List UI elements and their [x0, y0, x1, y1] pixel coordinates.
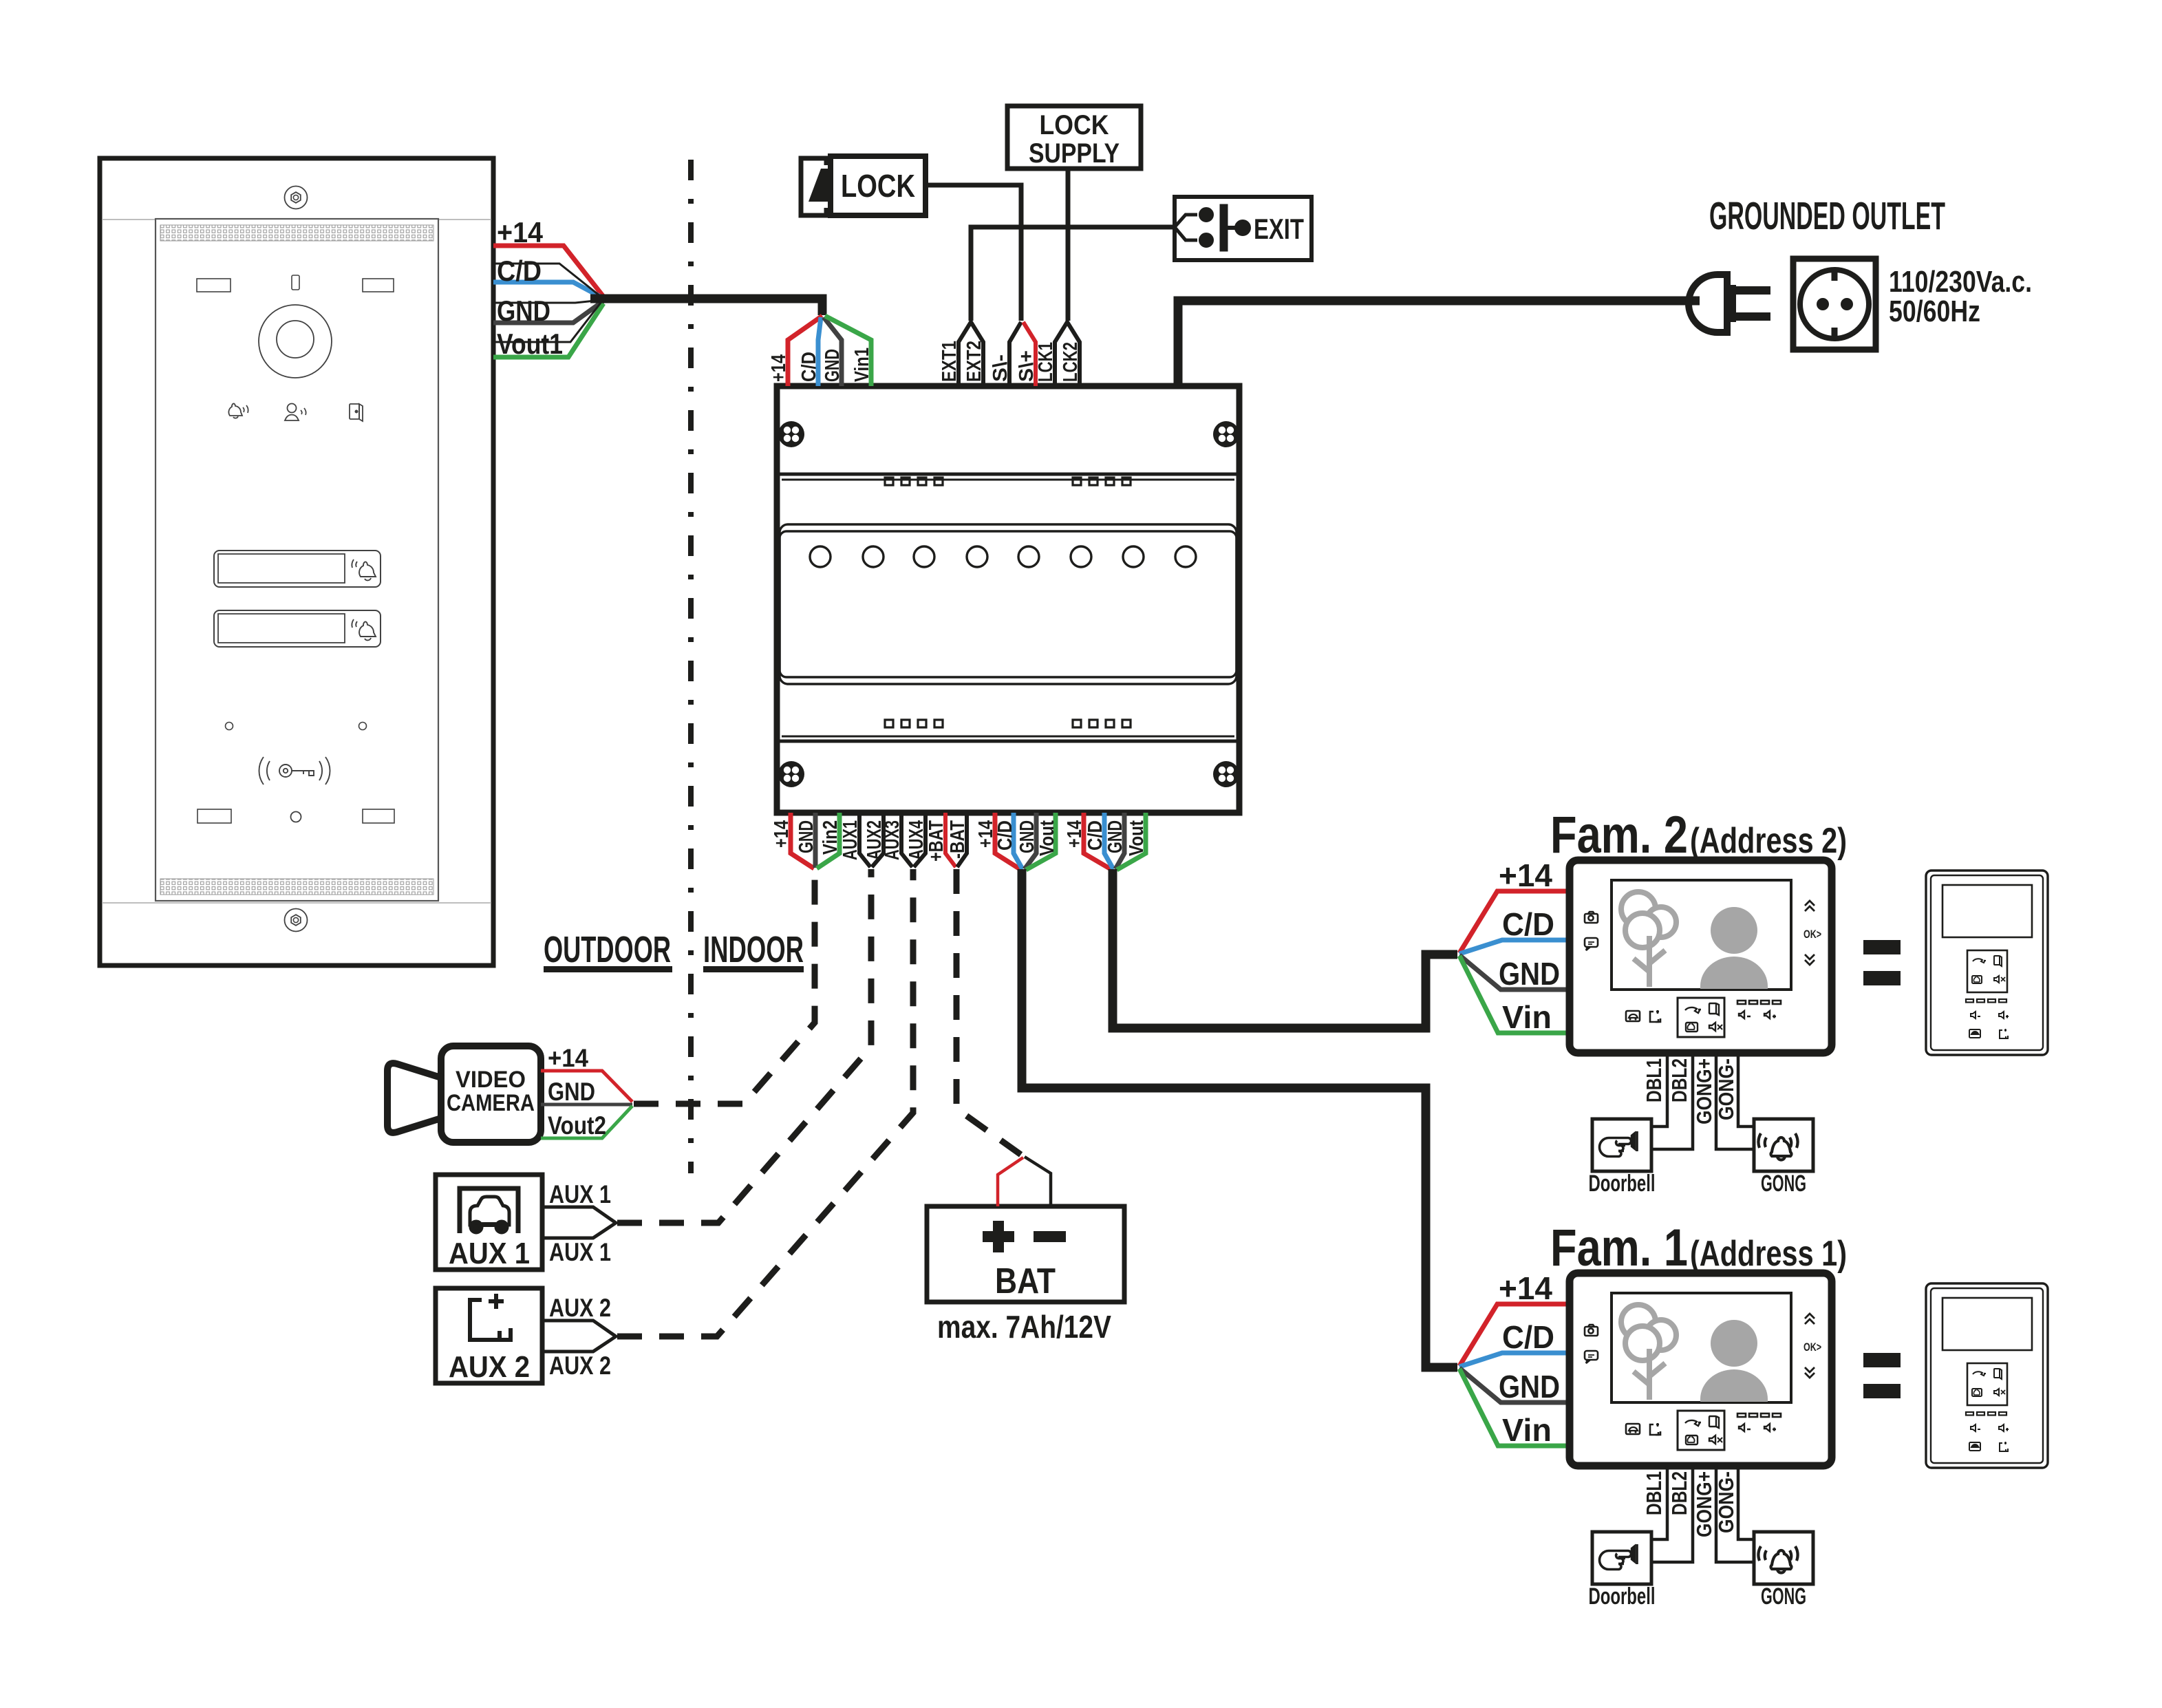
- svg-text:GONG+: GONG+: [1692, 1058, 1716, 1124]
- wire C/D group5: [1014, 813, 1023, 869]
- svg-text:INDOOR: INDOOR: [703, 929, 804, 970]
- svg-text:AUX 1: AUX 1: [449, 1237, 530, 1270]
- psu terminal squares bottom group A: [885, 720, 943, 727]
- aux2 arrow flag: [542, 1321, 616, 1352]
- SECTION: camera aux bat: [387, 869, 1124, 1384]
- svg-text:LOCK: LOCK: [841, 168, 915, 204]
- icon bell ring: [228, 403, 248, 418]
- wire +14 camera: [541, 1071, 632, 1102]
- bottom speaker hole: [291, 812, 301, 822]
- svg-text:(Address 1): (Address 1): [1690, 1234, 1847, 1274]
- wire exit to EXT pair: [971, 227, 1175, 321]
- led hole right: [359, 723, 367, 730]
- svg-text:Fam. 1: Fam. 1: [1550, 1219, 1688, 1277]
- underline OUTDOOR: [544, 966, 672, 972]
- psu terminal squares top group A: [885, 478, 943, 485]
- svg-text:C/D: C/D: [1084, 820, 1106, 851]
- compact icon door-open: [2000, 1029, 2008, 1038]
- wire lock supply to LCK pair: [1066, 169, 1071, 321]
- svg-text:AUX 1: AUX 1: [549, 1180, 611, 1208]
- gong bell icon: [1758, 1133, 1797, 1160]
- SECTION: outlet: [1178, 194, 2032, 386]
- sensor window right: [363, 279, 394, 292]
- svg-text:EXT2: EXT2: [963, 341, 985, 382]
- icon arrows down right: [1805, 954, 1815, 965]
- svg-text:GND: GND: [795, 820, 817, 853]
- wire GND group1: [813, 813, 818, 868]
- svg-text:+14: +14: [1064, 820, 1086, 848]
- compact icon handset: [1973, 959, 1986, 963]
- icon door in box: [1709, 1003, 1719, 1015]
- svg-text:50/60Hz: 50/60Hz: [1889, 295, 1980, 328]
- svg-text:S\-: S\-: [989, 354, 1012, 382]
- svg-text:Fam. 2: Fam. 2: [1550, 806, 1688, 864]
- svg-text:GONG: GONG: [1761, 1171, 1806, 1197]
- svg-text:Doorbell: Doorbell: [1589, 1171, 1656, 1197]
- flag outline 1: [493, 264, 600, 296]
- battery minus symbol: [1034, 1231, 1066, 1242]
- svg-text:AUX 1: AUX 1: [549, 1238, 611, 1266]
- svg-text:OK>: OK>: [1804, 928, 1821, 941]
- speaker grille bottom: [160, 879, 434, 895]
- wire Vout group5: [1026, 813, 1056, 870]
- lock strike bracket: [801, 158, 826, 215]
- compact icon door: [1994, 956, 2002, 966]
- wire Vout group6: [1117, 813, 1146, 870]
- svg-text:Vout: Vout: [1036, 820, 1058, 856]
- psu middle module outer: [780, 524, 1237, 684]
- fam unit reusable: [1459, 857, 2048, 1197]
- wire battery minus: [1025, 1157, 1051, 1206]
- psu top cap line: [777, 473, 1239, 476]
- wire GND to psu: [824, 317, 842, 386]
- wire AUX2: [872, 813, 884, 867]
- inner face plate: [156, 219, 438, 901]
- svg-text:+14: +14: [768, 354, 790, 382]
- wire AUX4: [914, 813, 925, 867]
- icon vol plus: [1764, 1011, 1776, 1018]
- doorbell hand icon: [1600, 1131, 1638, 1157]
- screw top: [285, 186, 308, 209]
- SECTION: psu bottom terminals: [771, 813, 1148, 870]
- aux2 box: [436, 1288, 542, 1383]
- video camera lens hood: [387, 1063, 441, 1133]
- svg-text:Vin: Vin: [1502, 999, 1552, 1035]
- svg-text:GND: GND: [548, 1078, 595, 1106]
- svg-text:GONG-: GONG-: [1714, 1058, 1738, 1120]
- wire +14 group6: [1084, 813, 1112, 870]
- SECTION: top boxes: [801, 106, 1312, 321]
- SECTION: divider: [544, 160, 804, 1173]
- wire GND group5: [1025, 813, 1036, 869]
- icon intercom speak: [285, 404, 306, 421]
- mains cable psu to plug: [1178, 301, 1700, 386]
- icon intercom left: [1585, 938, 1598, 950]
- dashed wire camera to psu: [634, 871, 815, 1104]
- compact monitor screen: [1942, 885, 2032, 937]
- svg-text:SUPPLY: SUPPLY: [1029, 138, 1120, 169]
- psu terminal squares top group B: [1073, 478, 1131, 485]
- svg-text:AUX4: AUX4: [906, 820, 928, 860]
- camera lens: [259, 305, 332, 378]
- bottom window left: [197, 809, 231, 823]
- svg-text:LOCK: LOCK: [1040, 110, 1109, 140]
- svg-text:110/230Va.c.: 110/230Va.c.: [1889, 265, 2032, 299]
- compact four dashes: [1966, 999, 2006, 1003]
- icon arrows up right: [1805, 901, 1815, 911]
- compact monitor button box: [1967, 950, 2007, 992]
- svg-text:Vout: Vout: [1126, 820, 1148, 856]
- svg-text:C/D: C/D: [994, 820, 1016, 851]
- compact vol minus: [1971, 1012, 1980, 1018]
- call button plate 2: [214, 610, 381, 647]
- svg-text:DBL1: DBL1: [1642, 1058, 1666, 1102]
- svg-text:EXT1: EXT1: [939, 341, 961, 382]
- compact icon bell-house: [1972, 976, 1982, 983]
- svg-text:GROUNDED OUTLET: GROUNDED OUTLET: [1709, 194, 1945, 238]
- psu screw bottom-right: [1213, 761, 1239, 787]
- svg-text:C/D: C/D: [798, 352, 820, 382]
- lock box: [831, 156, 925, 215]
- four dashes: [1737, 1001, 1781, 1004]
- compact vol plus: [1999, 1012, 2009, 1018]
- svg-text:DBL2: DBL2: [1667, 1058, 1691, 1102]
- svg-text:LCK2: LCK2: [1060, 342, 1082, 382]
- svg-text:BAT: BAT: [995, 1261, 1056, 1301]
- compact icon car: [1969, 1029, 1980, 1038]
- wire AUX3: [901, 813, 912, 867]
- svg-text:+14: +14: [497, 216, 544, 248]
- svg-text:AUX1: AUX1: [839, 820, 861, 860]
- wire +14 monitor: [1459, 891, 1570, 953]
- wire +BAT: [945, 813, 956, 867]
- SECTION: outdoor wires: [493, 216, 822, 360]
- wire +14 group5: [995, 813, 1021, 870]
- rfid key reader icon: [259, 757, 330, 784]
- psu screw top-left: [778, 421, 804, 447]
- psu top strip line: [782, 479, 1234, 481]
- wire GONG-: [1738, 1053, 1754, 1127]
- outlet socket icon: [1793, 259, 1876, 350]
- outdoor/indoor divider line: [688, 160, 694, 1173]
- wire GND camera: [541, 1103, 632, 1107]
- terminal pair EXT1 EXT2: [959, 322, 983, 386]
- dashed wire battery to psu: [956, 869, 1024, 1157]
- svg-text:AUX 2: AUX 2: [549, 1294, 611, 1322]
- svg-text:+14: +14: [548, 1044, 588, 1072]
- icon camera left: [1585, 912, 1598, 923]
- terminal pair LCK1 LCK2: [1055, 322, 1080, 386]
- monitor center button box: [1678, 998, 1724, 1037]
- svg-text:GND: GND: [822, 349, 844, 382]
- wire GND door station: [493, 301, 603, 323]
- wire AUX1: [859, 813, 870, 867]
- gong box: [1754, 1119, 1813, 1171]
- SECTION: psu: [777, 386, 1239, 813]
- outdoor door station panel frame: [100, 158, 493, 965]
- use fam1 duplicate of fam unit: [1459, 1270, 2048, 1610]
- svg-text:(Address 2): (Address 2): [1690, 821, 1847, 861]
- led hole left: [226, 723, 233, 730]
- wire lock to S pair: [925, 185, 1021, 321]
- svg-text:Vout1: Vout1: [497, 328, 563, 360]
- terminal pair S- S+: [1009, 322, 1021, 386]
- doorbell box: [1592, 1119, 1651, 1171]
- icon bell-house in box: [1686, 1023, 1698, 1032]
- wire Vin2 group1: [817, 813, 839, 868]
- screw bottom: [285, 909, 308, 932]
- dashed wire aux1 to psu: [617, 869, 871, 1223]
- speaker grille top: [160, 225, 434, 241]
- wire C/D group6: [1104, 813, 1113, 869]
- mic slot center: [292, 275, 299, 290]
- main bus cable from door station: [590, 299, 822, 315]
- flag outline 3: [493, 303, 601, 342]
- icon car-monitor bottom: [1626, 1011, 1640, 1021]
- psu terminal squares bottom group B: [1073, 720, 1131, 727]
- wire Vout1 door station: [493, 303, 603, 357]
- psu vent holes: [810, 546, 1196, 567]
- battery box: [927, 1206, 1124, 1302]
- cable psu to fam2 monitor: [1113, 869, 1457, 1028]
- svg-text:EXIT: EXIT: [1254, 213, 1304, 245]
- flag outline 2: [493, 300, 601, 303]
- icon mute in box: [1709, 1023, 1722, 1031]
- sensor window left: [197, 279, 231, 292]
- psu power supply unit body: [777, 386, 1239, 813]
- panel face split line top: [102, 219, 491, 220]
- svg-text:+BAT: +BAT: [925, 820, 948, 862]
- icon door-open bottom: [1650, 1010, 1660, 1022]
- compact icon mute: [1994, 976, 2005, 983]
- cable psu to fam1 monitor: [1022, 869, 1457, 1367]
- wire GND monitor: [1459, 955, 1570, 990]
- psu middle module inner: [780, 531, 1237, 677]
- wire -BAT: [957, 813, 967, 867]
- wire C/D door station: [493, 282, 603, 298]
- icon door release: [350, 404, 363, 421]
- svg-text:GND: GND: [1016, 820, 1038, 853]
- wire +14 to psu: [788, 316, 822, 386]
- svg-text:AUX3: AUX3: [881, 820, 903, 860]
- wire C/D monitor: [1459, 940, 1570, 954]
- node door cable junction: [601, 297, 606, 302]
- exit button icon: [1175, 204, 1251, 251]
- psu bottom cap line: [777, 740, 1239, 743]
- lock supply box: [1007, 106, 1141, 169]
- lock latch bolt: [809, 169, 831, 202]
- aux1 box: [436, 1175, 542, 1270]
- wire C/D to psu: [818, 317, 821, 386]
- svg-text:GND: GND: [1104, 820, 1126, 853]
- svg-text:C/D: C/D: [497, 255, 542, 287]
- svg-text:+14: +14: [771, 820, 793, 848]
- video camera body: [441, 1046, 541, 1142]
- wire Vin1 to psu: [825, 316, 871, 386]
- svg-text:Vin1: Vin1: [851, 348, 873, 382]
- icon vol minus: [1739, 1011, 1751, 1018]
- aux2 door-open icon: [470, 1294, 511, 1340]
- aux1 arrow flag: [542, 1207, 616, 1238]
- bottom window right: [363, 809, 394, 823]
- exit button box: [1175, 197, 1312, 260]
- wire DBL2: [1652, 1053, 1693, 1149]
- svg-text:OUTDOOR: OUTDOOR: [544, 929, 671, 970]
- indoor monitor body: [1570, 860, 1832, 1053]
- icon handset in box: [1685, 1007, 1701, 1013]
- wire DBL1: [1652, 1053, 1667, 1127]
- wire +14 group1: [791, 813, 814, 868]
- screen tree icon: [1621, 892, 1676, 948]
- panel face split line bottom: [102, 902, 491, 904]
- svg-text:Vin2: Vin2: [820, 820, 842, 855]
- psu screw top-right: [1213, 421, 1239, 447]
- wire GND group6: [1115, 813, 1124, 869]
- svg-text:AUX 2: AUX 2: [449, 1350, 530, 1384]
- dashed wire aux2 to psu: [617, 869, 913, 1336]
- compact monitor body: [1926, 871, 2048, 1055]
- screen person icon: [1700, 907, 1768, 989]
- svg-text:max. 7Ah/12V: max. 7Ah/12V: [937, 1309, 1111, 1345]
- SECTION: psu top terminals: [768, 316, 1082, 386]
- wire GONG+: [1716, 1053, 1754, 1149]
- wire Vout2 camera: [541, 1106, 632, 1138]
- SECTION: door station: [100, 158, 493, 965]
- wire Vin monitor: [1459, 956, 1570, 1033]
- psu bottom strip line: [782, 736, 1234, 738]
- battery plus symbol: [983, 1221, 1014, 1252]
- svg-text:AUX 2: AUX 2: [549, 1352, 611, 1380]
- wire +14 door station: [493, 246, 603, 297]
- svg-text:VIDEO: VIDEO: [456, 1067, 526, 1093]
- psu screw bottom-left: [778, 761, 804, 787]
- underline INDOOR: [703, 966, 804, 972]
- svg-text:GND: GND: [1499, 956, 1560, 992]
- svg-text:CAMERA: CAMERA: [447, 1090, 535, 1116]
- svg-text:C/D: C/D: [1502, 906, 1554, 942]
- svg-text:GND: GND: [497, 295, 550, 327]
- svg-text:-BAT: -BAT: [947, 820, 969, 859]
- call button plate 1: [214, 551, 381, 587]
- monitor screen: [1612, 880, 1791, 990]
- mains plug icon: [1689, 275, 1770, 332]
- svg-text:+14: +14: [1499, 857, 1552, 893]
- svg-text:LCK1: LCK1: [1035, 342, 1057, 382]
- equals sign: [1863, 940, 1901, 954]
- wire battery plus: [998, 1157, 1023, 1206]
- svg-text:Vout2: Vout2: [548, 1111, 606, 1140]
- aux1 garage icon: [460, 1188, 518, 1233]
